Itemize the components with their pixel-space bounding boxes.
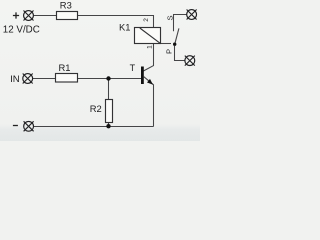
svg-text:1: 1 bbox=[146, 45, 153, 49]
svg-text:P: P bbox=[165, 49, 174, 54]
svg-text:R1: R1 bbox=[59, 62, 71, 73]
svg-text:T: T bbox=[130, 63, 136, 73]
svg-text:12 V/DC: 12 V/DC bbox=[3, 25, 40, 36]
svg-text:IN: IN bbox=[10, 74, 20, 85]
svg-text:2: 2 bbox=[143, 18, 150, 22]
svg-text:S: S bbox=[166, 15, 175, 20]
svg-text:R3: R3 bbox=[60, 0, 72, 10]
svg-text:R2: R2 bbox=[90, 103, 102, 114]
svg-text:K1: K1 bbox=[119, 22, 130, 33]
